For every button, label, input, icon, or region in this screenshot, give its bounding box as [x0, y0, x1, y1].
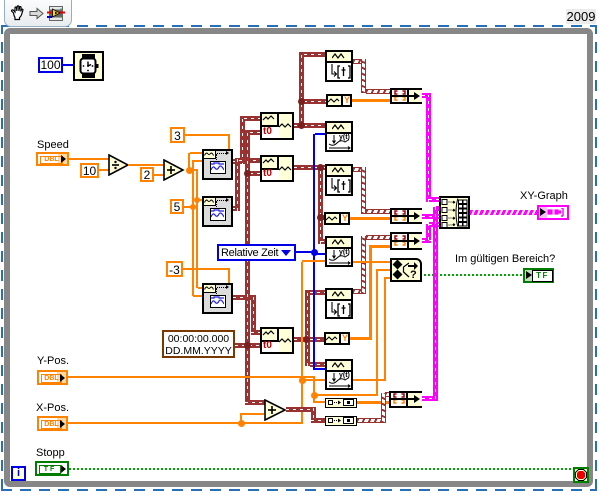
wire Bundle 1 output to Build Array pin 1 — [422, 93, 431, 98]
add function — [163, 159, 185, 181]
enum constant Relative Zeit — [217, 244, 296, 261]
wire Bundle 4 output to Build Array pin 2 — [422, 396, 438, 401]
wire add2 output to Build Array small 2 — [286, 407, 316, 412]
node: Build C trunk junction — [303, 336, 310, 343]
hand tool icon — [9, 4, 27, 22]
label XY-Graph — [520, 191, 568, 202]
control terminal Speed DBL — [36, 152, 69, 166]
label Speed — [37, 140, 69, 151]
wire 5 net (to express amplitude inputs) — [184, 206, 193, 208]
wire Speed to divide — [69, 158, 109, 160]
node: X-Pos corner junction — [299, 377, 306, 384]
Build Array small 2 — [325, 416, 357, 426]
indicator terminal TF — [523, 268, 554, 283]
add function 2 (timestamp + X-Pos) — [264, 399, 287, 421]
wire Build B output trunk — [294, 165, 325, 170]
wire add output net (to express VIs frequency inputs) — [188, 153, 190, 168]
node: Build B trunk junction 1 — [317, 164, 324, 171]
wire express VI 2 output to Build Waveform B — [233, 206, 240, 211]
express VI 2 Simulate Signal — [202, 196, 233, 227]
svg-text:?: ? — [410, 269, 417, 280]
wire divide to add — [128, 164, 164, 166]
step/arrow tool icon — [29, 7, 44, 20]
VI film icon — [47, 5, 65, 22]
wire Bundle 3 output to Build Array pin 4 — [422, 238, 431, 243]
indicator terminal XY-Graph — [537, 205, 569, 220]
wire Bundle 2 output to Build Array pin 3 — [422, 214, 441, 219]
while loop selection marching ants bottom — [1, 489, 597, 491]
time stamp constant 00:00:00.000 DD.MM.YYYY — [162, 330, 235, 358]
wire Build Array output to XY-Graph — [470, 210, 537, 215]
Get Waveform Components [t] 3 — [325, 288, 353, 319]
while loop selection marching ants right — [595, 25, 597, 490]
In Range and Coerce — [390, 258, 422, 282]
wire Get[t]2 output to Bundle 2 — [353, 167, 366, 172]
Get Waveform Components Y 2 — [324, 212, 350, 225]
wire GetY2 output to Bundle 2 — [350, 217, 390, 220]
Get Waveform y(t) 3 — [325, 359, 353, 390]
node: X-Pos junction at add — [238, 420, 245, 427]
divide function — [108, 154, 130, 176]
Get Waveform Components Y 1 — [326, 94, 352, 107]
Get Waveform Components [t] 2 — [325, 164, 353, 196]
numeric constant -3 — [166, 261, 183, 277]
while loop selection marching ants top — [1, 25, 597, 27]
numeric constant 10 — [80, 163, 99, 178]
control terminal Y-Pos DBL — [37, 370, 68, 385]
wire Y-Pos line to array and In Range — [68, 376, 315, 378]
Build Array small 1 — [325, 398, 357, 408]
numeric constant 5 — [170, 199, 184, 214]
wire X-Pos line — [68, 422, 303, 424]
express VI 1 Simulate Signal — [202, 149, 233, 180]
toolbar palette box — [4, 0, 72, 27]
wire enum blue trunk to y(t) blocks — [296, 251, 315, 253]
node: Build A trunk junction 2 — [298, 122, 305, 129]
Get Waveform Components Y 3 — [324, 332, 350, 345]
label Stopp — [36, 448, 65, 459]
Bundle 2 — [390, 208, 422, 224]
wire time stamp trunk (t0 distribution) — [235, 343, 260, 348]
wait (ms) function — [73, 51, 104, 81]
control terminal Stopp TF — [35, 461, 69, 476]
Build Array (4 inputs) — [439, 196, 470, 229]
node: add output junction — [186, 167, 193, 174]
node: Y-Pos junction — [311, 392, 318, 399]
Get Waveform Components [t] 1 — [325, 50, 353, 82]
wire y(t)2 output to In Range upper — [353, 261, 390, 263]
label Im gueltigen Bereich? — [455, 254, 555, 265]
node: Build B trunk junction 2 — [317, 214, 324, 221]
wire express VI 3 output to Build Waveform C — [233, 295, 255, 300]
wire 10 to divide — [99, 169, 109, 171]
Build Waveform A — [260, 112, 294, 140]
numeric constant 100 — [38, 57, 63, 73]
node: timestamp junction at Build B t0 — [244, 170, 251, 177]
wire -3 to express VI 3 — [183, 268, 230, 270]
numeric constant 3 — [170, 127, 185, 143]
wire 100 to wait — [62, 64, 73, 66]
node: X-Pos time junction — [299, 377, 306, 384]
wire Build Array small 2 output to Bundle 4 — [357, 418, 385, 423]
Get Waveform y(t) 2 — [325, 236, 353, 267]
numeric constant 2 — [140, 167, 154, 182]
wire GetY1 output to Bundle 1 — [352, 99, 390, 102]
label Y-Pos. — [37, 356, 69, 367]
wire Build A output trunk — [294, 123, 304, 128]
wire GetY3 output to Bundle 3 — [350, 337, 372, 340]
iteration terminal i — [11, 466, 26, 481]
wire y(t)3 output to In Range lower — [353, 379, 386, 381]
wire X-Pos time line to y(t) t inputs — [301, 262, 303, 381]
node: Build A trunk junction 1 — [298, 98, 305, 105]
wire Get[t]1 output to Bundle 1 — [353, 59, 366, 64]
wire 2 to add — [153, 174, 164, 176]
loop condition stop terminal — [573, 467, 589, 483]
wire express VI 1 output to Build Waveform A — [233, 159, 245, 164]
Bundle 4 — [389, 391, 422, 408]
node: blue junction — [311, 249, 318, 256]
Build Waveform B — [260, 155, 294, 182]
free label 2009 — [566, 9, 596, 24]
control terminal X-Pos DBL — [37, 416, 68, 431]
wire Stopp to loop condition — [69, 468, 573, 470]
wire In Range output to TF indicator — [424, 274, 523, 276]
wire 3 to express VI 1 — [185, 134, 230, 136]
express VI 3 Simulate Signal — [202, 283, 233, 314]
Get Waveform y(t) 1 — [325, 121, 353, 152]
Build Waveform C — [260, 327, 294, 354]
label X-Pos. — [36, 403, 69, 414]
wire Build C output trunk — [294, 337, 308, 342]
Bundle 3 — [390, 232, 422, 250]
Bundle 1 — [390, 88, 422, 104]
node: timestamp junction at Build C — [244, 342, 251, 349]
while loop selection marching ants left — [1, 25, 3, 490]
wire Get[t]3 output to Bundle 3 — [353, 289, 366, 294]
wire Build Array small 1 output to Bundle 4 — [357, 401, 389, 404]
